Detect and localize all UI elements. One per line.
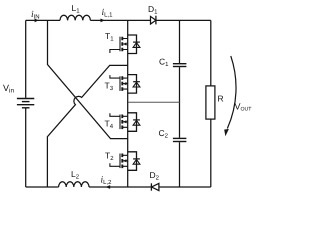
transistor T3: [120, 75, 140, 94]
svg-text:D1: D1: [148, 4, 158, 16]
gate lead T3: [110, 75, 120, 78]
svg-text:T2: T2: [105, 151, 114, 163]
svg-text:VOUT: VOUT: [235, 102, 253, 113]
wire cross link top rail to T4-T2 node: [48, 20, 128, 138]
wire switch stack vertical: [127, 20, 129, 187]
diode D2: [152, 183, 159, 190]
inductor L2: [59, 182, 89, 187]
svg-text:C2: C2: [159, 128, 169, 140]
gate lead T4: [110, 113, 120, 116]
svg-text:T1: T1: [105, 31, 114, 43]
current arrow iL2: [105, 185, 110, 189]
wire capacitor branch: [179, 20, 181, 187]
transistor T2: [120, 152, 140, 171]
svg-text:L1: L1: [72, 3, 81, 15]
svg-text:T3: T3: [105, 81, 114, 93]
svg-text:iL,2: iL,2: [101, 175, 113, 186]
svg-text:C1: C1: [159, 57, 169, 69]
diode D1: [151, 16, 156, 24]
svg-text:iIN: iIN: [31, 10, 40, 21]
wire mid link stack to capacitors: [128, 101, 180, 103]
svg-text:R: R: [218, 94, 224, 104]
transistor T4: [120, 113, 140, 132]
wire top rail: [26, 19, 211, 21]
gate lead T1: [110, 50, 120, 54]
resistor R: [206, 86, 215, 119]
transistor T1: [120, 35, 140, 54]
inductor L1: [60, 15, 90, 20]
wire right rail: [210, 20, 212, 187]
svg-text:T4: T4: [105, 118, 114, 130]
wire left rail: [25, 20, 27, 187]
current arrow iL1: [101, 19, 105, 23]
wire cross link bottom rail to T1-T3 node (with hop): [47, 65, 127, 187]
gate lead T2: [110, 163, 120, 166]
capacitor C1: [173, 64, 187, 67]
battery Vin: [17, 99, 34, 108]
wire bottom rail: [26, 186, 211, 188]
svg-text:D2: D2: [150, 170, 160, 182]
svg-text:L2: L2: [71, 169, 80, 181]
svg-text:iL,1: iL,1: [102, 8, 114, 18]
capacitor C2: [173, 138, 187, 141]
arrow Vout: [227, 56, 236, 129]
svg-text:Vin: Vin: [3, 83, 14, 95]
current arrow iIN: [35, 19, 39, 23]
